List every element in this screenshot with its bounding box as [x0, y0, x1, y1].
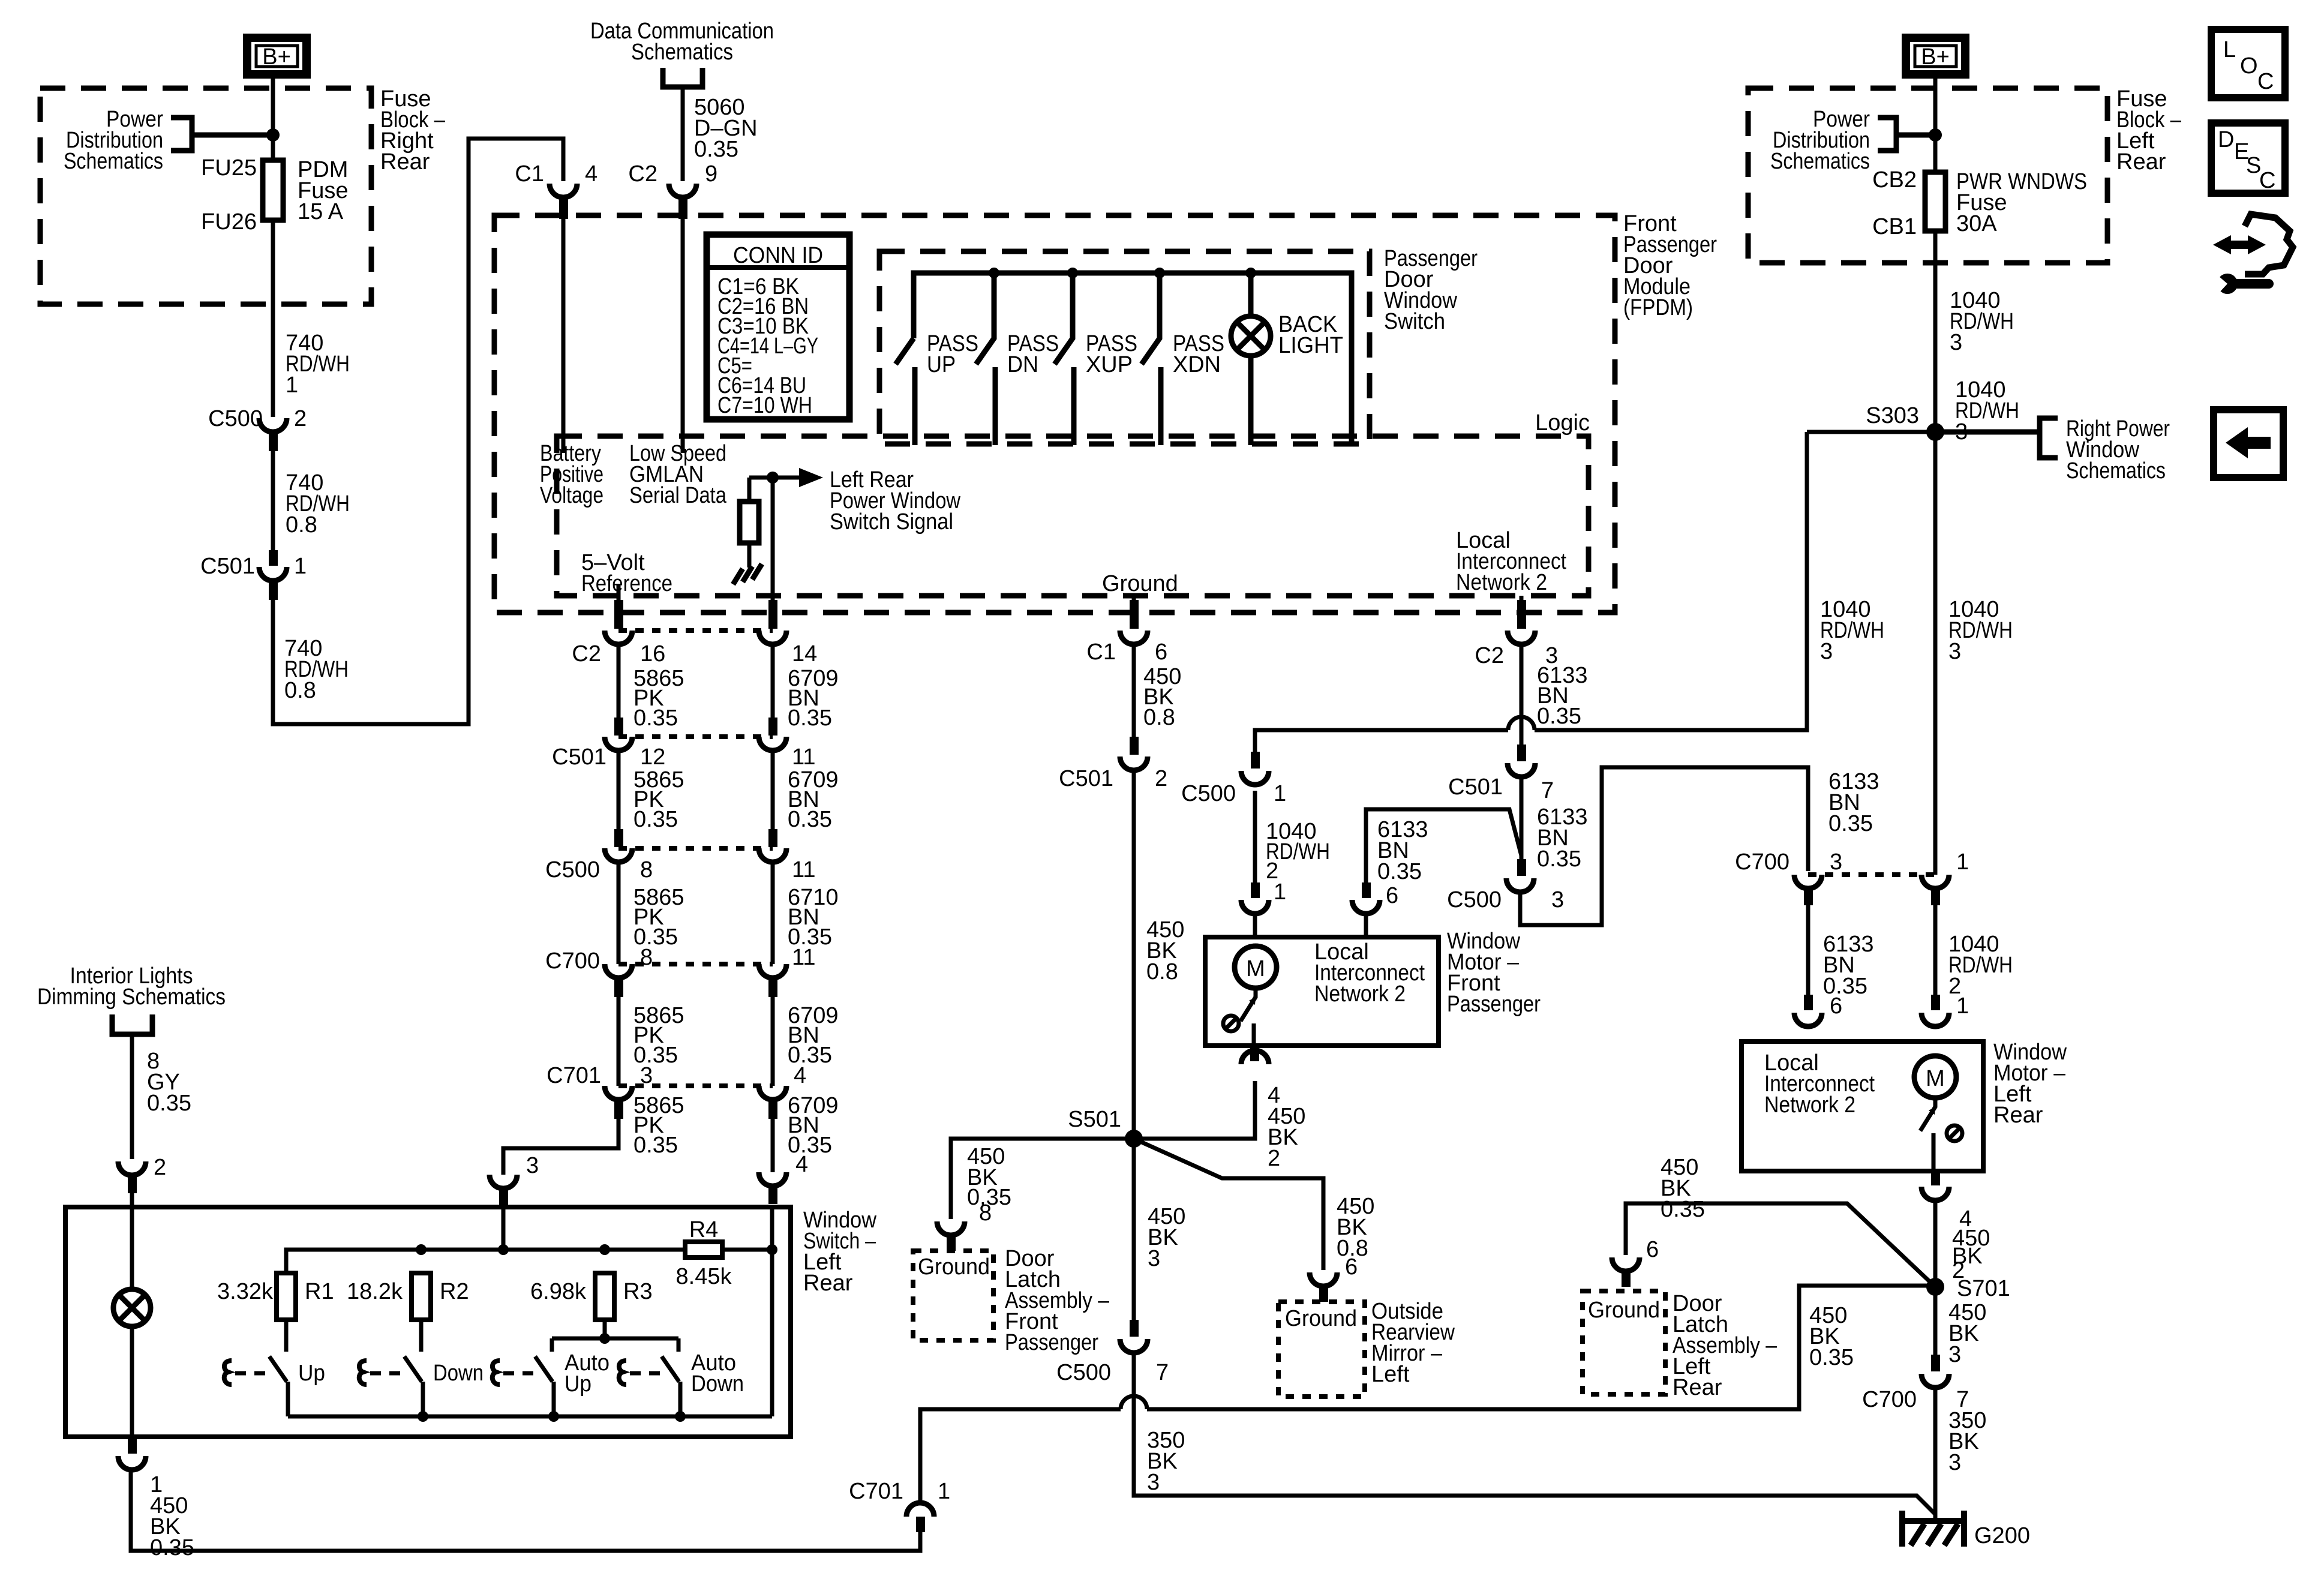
connector C700 pin 1 (main feed): [1921, 849, 1969, 905]
svg-text:3: 3: [1830, 849, 1842, 875]
svg-text:C500: C500: [208, 406, 263, 431]
svg-text:8: 8: [640, 857, 653, 882]
connector door latch front passenger pin 8: [937, 1221, 965, 1251]
wire callout to B+ feed: [192, 133, 273, 138]
svg-text:Ground: Ground: [1102, 571, 1178, 596]
svg-text:0.35: 0.35: [150, 1535, 194, 1560]
connector C1 pin 4: [515, 161, 597, 219]
node pin4 bus junction: [767, 1244, 777, 1255]
svg-text:2: 2: [1155, 766, 1167, 791]
svg-text:11: 11: [792, 945, 815, 970]
svg-text:Rear: Rear: [1993, 1103, 2043, 1128]
svg-text:0.35: 0.35: [1661, 1197, 1705, 1222]
wire 5865 PK 0.35 (C2-16 to C501-12): [618, 644, 684, 731]
connector window switch pin 4: [759, 1172, 786, 1204]
wire 350 BK 3 from C500-7 to G200 lead: [1134, 1353, 1935, 1514]
svg-text:Passenger: Passenger: [1447, 992, 1541, 1017]
logic block dashed box: [557, 436, 1589, 596]
connector C501 pin 7: [1448, 745, 1554, 803]
wire 6133 BN 0.35 (C501-7 to C500-3): [1521, 777, 1588, 876]
connector FP motor pin 6: [1352, 882, 1380, 914]
connector C700 pair dotted line: [1808, 872, 1935, 877]
label Local Interconnect Network 2 (LR motor): [1764, 1050, 1875, 1118]
node on bus (back light): [1245, 268, 1256, 278]
label Low Speed GMLAN Serial Data: [629, 441, 727, 508]
svg-text:Network 2: Network 2: [1314, 981, 1406, 1007]
svg-text:FU26: FU26: [201, 209, 257, 235]
wire S501 to outside rearview mirror, 450 BK 0.8 pin 6: [1134, 1139, 1374, 1280]
svg-text:12: 12: [640, 745, 665, 770]
svg-text:9: 9: [705, 161, 717, 187]
connector C500 pin 8: [545, 829, 653, 882]
switch PASS XDN: [1142, 273, 1224, 445]
svg-text:UP: UP: [927, 352, 956, 377]
svg-text:C: C: [2257, 69, 2274, 94]
svg-text:6: 6: [1386, 883, 1398, 908]
connector LR motor pin 4: [1921, 1171, 1972, 1232]
svg-text:Switch: Switch: [1384, 309, 1445, 334]
svg-text:C2: C2: [628, 161, 657, 187]
svg-text:6: 6: [1830, 993, 1842, 1019]
wire 5-volt reference to C2 pin 16: [617, 585, 621, 618]
svg-text:Rear: Rear: [1673, 1375, 1722, 1400]
svg-text:C501: C501: [1059, 766, 1113, 791]
svg-text:0.35: 0.35: [1809, 1345, 1854, 1370]
icon LOC box: [2211, 29, 2285, 98]
svg-text:C500: C500: [1056, 1360, 1111, 1385]
wire 5060 D-GN 0.35: [683, 87, 758, 181]
node R3 on bus: [599, 1244, 610, 1255]
svg-text:R1: R1: [305, 1279, 334, 1304]
svg-text:C1: C1: [515, 161, 544, 187]
svg-text:Ground: Ground: [918, 1254, 990, 1280]
svg-text:3: 3: [1950, 330, 1962, 355]
label Fuse Block - Left Rear: [2116, 86, 2182, 175]
wire 6133 BN 0.35 (C700-3 to LR motor pin 6): [1808, 905, 1874, 1019]
wire bottom switch bus: [288, 1415, 772, 1419]
svg-text:1: 1: [294, 554, 307, 579]
connector outside rearview mirror pin 6: [1310, 1272, 1337, 1302]
node tee under R3: [599, 1333, 610, 1344]
connector C500 pin 7: [1056, 1320, 1169, 1385]
connector C501 pin 2: [1059, 737, 1167, 791]
svg-text:C7=10 WH: C7=10 WH: [717, 393, 812, 418]
switch Up: [224, 1320, 325, 1416]
svg-text:Down: Down: [433, 1361, 484, 1386]
wire 6709 BN 0.35 to window switch pin 4: [773, 1093, 839, 1177]
wire pin 3 drop to bus: [502, 1206, 506, 1250]
label Window Motor - Front Passenger: [1447, 929, 1541, 1017]
connector LR motor pin 1: [1921, 995, 1949, 1026]
svg-text:Rear: Rear: [380, 149, 430, 175]
connector C1 pin 6: [1086, 600, 1167, 665]
svg-text:C701: C701: [849, 1479, 903, 1504]
svg-text:Switch Signal: Switch Signal: [830, 509, 953, 535]
svg-text:3.32k: 3.32k: [217, 1279, 274, 1304]
svg-text:Rear: Rear: [2116, 149, 2166, 175]
svg-text:2: 2: [294, 406, 307, 431]
svg-text:0.35: 0.35: [633, 1133, 678, 1158]
svg-text:R3: R3: [623, 1279, 653, 1304]
svg-text:B+: B+: [1921, 44, 1950, 70]
splice S701: [1926, 1276, 2010, 1301]
node junction at resistor top: [767, 472, 779, 484]
svg-text:CB1: CB1: [1872, 214, 1917, 239]
connector C500 pin 3: [1447, 859, 1564, 912]
svg-text:0.8: 0.8: [1146, 959, 1178, 984]
connector C700 pin 3: [1735, 849, 1842, 905]
svg-text:11: 11: [792, 745, 815, 770]
svg-text:3: 3: [1948, 1450, 1961, 1475]
wire 5865 PK 0.35 to window switch pin 3: [503, 1093, 684, 1175]
svg-text:7: 7: [1156, 1360, 1169, 1385]
label Front Passenger Door Module (FPDM): [1623, 211, 1717, 320]
svg-text:C2: C2: [1475, 643, 1504, 668]
connector FP motor pin 4: [1241, 1046, 1269, 1064]
svg-text:8: 8: [979, 1200, 992, 1226]
wire 6709 BN 0.35 (C700-11 to C701-4): [773, 997, 839, 1086]
wire 5865 PK 0.35 (C500-8 to C700-8): [618, 862, 684, 964]
node R2 on bus: [416, 1244, 427, 1255]
svg-text:2: 2: [1268, 1146, 1280, 1171]
svg-text:CONN ID: CONN ID: [733, 243, 823, 268]
label Door Latch Assembly - Front Passenger: [1005, 1246, 1110, 1355]
wire door latch left rear to S701: [1626, 1203, 1935, 1287]
node on bus (PASS XDN): [1154, 268, 1165, 278]
ground (internal): [733, 564, 762, 584]
wire S303 down main 1040 RD/WH 3: [1935, 432, 2013, 875]
wire C1-4 battery voltage input stub: [562, 219, 566, 453]
svg-text:Up: Up: [565, 1371, 591, 1397]
svg-text:M: M: [1246, 956, 1265, 981]
fuse block right rear dashed box: [40, 88, 371, 304]
svg-text:R2: R2: [440, 1279, 469, 1304]
svg-text:Schematics: Schematics: [2066, 458, 2166, 484]
label Door Latch Assembly - Left Rear: [1673, 1291, 1777, 1400]
svg-text:C500: C500: [1181, 781, 1236, 806]
connector C2 pin 16: [572, 600, 665, 667]
svg-text:15 A: 15 A: [298, 199, 344, 224]
switch Auto Up: [493, 1350, 609, 1416]
svg-text:3: 3: [1820, 639, 1833, 664]
connector C501 pin 11: [759, 718, 815, 770]
svg-text:B+: B+: [262, 44, 291, 70]
window motor front passenger box: [1205, 937, 1439, 1046]
svg-text:Schematics: Schematics: [64, 149, 163, 174]
switch PASS DN: [976, 273, 1059, 445]
node pin3 on bus: [498, 1244, 509, 1255]
wire S303 left branch to 1040 down-run: [1807, 430, 1935, 434]
wire R3 to auto switches tee: [552, 1320, 678, 1352]
svg-text:L: L: [2223, 37, 2236, 62]
icon vehicle double-arrow with wrench: [2213, 214, 2293, 294]
svg-text:C500: C500: [545, 857, 600, 882]
connector door latch left rear pin 6: [1612, 1237, 1659, 1287]
svg-text:0.35: 0.35: [633, 706, 678, 731]
svg-text:6: 6: [1646, 1237, 1659, 1262]
motor M (front passenger) with internal switch: [1223, 946, 1277, 1046]
svg-text:6.98k: 6.98k: [530, 1279, 587, 1304]
wire 450 BK 0.8 (C501-2 to S501): [1134, 770, 1184, 1139]
hop of 1040 wire over 6133 wire: [1508, 717, 1535, 730]
fuse FU25/FU26 PDM Fuse 15 A: [201, 155, 348, 235]
svg-text:0.35: 0.35: [147, 1091, 191, 1116]
svg-text:0.35: 0.35: [633, 807, 678, 832]
window switch left rear box: [65, 1207, 791, 1437]
node Down on bottom bus: [418, 1411, 428, 1422]
svg-text:C701: C701: [547, 1063, 601, 1088]
svg-text:0.35: 0.35: [694, 137, 738, 162]
svg-text:18.2k: 18.2k: [347, 1279, 403, 1304]
wire junction down to C2 pin 14: [771, 478, 775, 618]
wire top resistor bus: [286, 1250, 685, 1273]
label 5-Volt Reference: [581, 550, 672, 596]
wire C501-1 to FPDM connector C1 pin 4, label 740 RD/WH 0.8: [273, 139, 563, 724]
svg-text:0.35: 0.35: [788, 706, 832, 731]
svg-text:FU25: FU25: [201, 155, 257, 181]
resistor R1 3.32k: [217, 1273, 334, 1320]
svg-text:S501: S501: [1068, 1107, 1121, 1132]
wire 1040 RD/WH 2 from S303 branch to C500-1 and FP motor pin 1: [1255, 432, 1807, 938]
svg-text:CB2: CB2: [1872, 167, 1917, 193]
svg-text:C700: C700: [1735, 849, 1789, 875]
wire C2-3 down with hop over 1040 wire: [1517, 600, 1526, 629]
connector LR motor pin 6: [1794, 995, 1822, 1026]
svg-text:Up: Up: [298, 1361, 325, 1386]
svg-text:3: 3: [526, 1153, 539, 1178]
svg-text:D: D: [2218, 127, 2234, 152]
svg-text:0.35: 0.35: [1377, 859, 1422, 884]
svg-text:16: 16: [640, 641, 665, 667]
switch PASS UP: [896, 331, 978, 445]
node Auto Down on bottom bus: [675, 1411, 686, 1422]
svg-text:1: 1: [1274, 781, 1286, 806]
svg-text:C501: C501: [1448, 775, 1503, 800]
svg-text:Passenger: Passenger: [1005, 1330, 1098, 1355]
wire 6710 BN 0.35 (C500-11 to C700-11): [773, 862, 839, 964]
svg-text:Dimming Schematics: Dimming Schematics: [37, 984, 226, 1010]
wire 1040 RD/WH 2 (C700-1 to LR motor pin 1): [1935, 905, 2013, 1019]
wire C500-3 to C700-3: [1520, 767, 1808, 925]
wire switch supply bus: [914, 273, 1352, 445]
callout Power Distribution Schematics: [64, 107, 192, 174]
wire callout to B+ feed (right): [1896, 133, 1935, 138]
svg-text:2: 2: [1266, 858, 1278, 884]
label Passenger Door Window Switch: [1384, 246, 1478, 334]
svg-text:3: 3: [1948, 1342, 1961, 1367]
connector C701 pin 3: [547, 1063, 653, 1119]
svg-text:1: 1: [1956, 993, 1969, 1019]
svg-text:0.35: 0.35: [788, 807, 832, 832]
wire S501 to door latch front passenger, 450 BK 0.35 pin 8: [951, 1139, 1134, 1226]
connector C501 pair dotted line: [618, 734, 773, 739]
switch Down: [359, 1320, 484, 1416]
svg-text:0.8: 0.8: [1143, 705, 1175, 730]
svg-text:Network 2: Network 2: [1456, 570, 1547, 595]
connector C700 pin 8: [545, 945, 653, 997]
label Window Motor - Left Rear: [1993, 1040, 2067, 1128]
svg-text:1: 1: [1956, 849, 1969, 875]
wire 450 BK 0.35 from C701-1 to S701 with hop at C500-7 drop: [920, 1286, 1935, 1503]
svg-text:11: 11: [792, 857, 815, 882]
connector C500 pair dotted line: [618, 846, 773, 851]
wire 5865 PK 0.35 (C501-12 to C500-8): [618, 751, 684, 832]
svg-text:C700: C700: [1862, 1387, 1917, 1412]
svg-text:C700: C700: [545, 948, 600, 974]
svg-text:Serial Data: Serial Data: [629, 483, 727, 508]
connector C500 pin 11: [759, 829, 815, 882]
svg-text:Left: Left: [1371, 1362, 1410, 1387]
svg-text:1: 1: [938, 1479, 950, 1504]
svg-text:M: M: [1926, 1066, 1945, 1091]
wire B+ down to fuse: [271, 79, 275, 160]
svg-text:XUP: XUP: [1086, 352, 1133, 377]
wire S501 down 450 BK 3 to C500-7: [1134, 1139, 1185, 1333]
table CONN ID: [707, 235, 849, 419]
svg-text:2: 2: [154, 1155, 166, 1180]
ground door latch assembly left rear (dashed box): [1583, 1291, 1665, 1394]
svg-text:Schematics: Schematics: [631, 40, 733, 65]
wire bottom ground return from switch pin 1 to C701-1: [131, 1471, 920, 1551]
label 1040 RD/WH 3 (S303 left branch): [1820, 597, 1884, 664]
svg-text:LIGHT: LIGHT: [1278, 333, 1343, 358]
connector FP motor pin 1: [1241, 879, 1286, 914]
switch PASS XUP: [1055, 273, 1137, 445]
svg-text:0.35: 0.35: [1537, 704, 1581, 729]
connector C701 pin 1 (ground return): [849, 1479, 950, 1532]
svg-text:4: 4: [794, 1063, 806, 1088]
svg-text:DN: DN: [1007, 352, 1038, 377]
callout Power Distribution Schematics (right): [1770, 107, 1896, 174]
resistor R3 6.98k: [530, 1273, 653, 1320]
svg-text:4: 4: [585, 161, 597, 187]
node on bus (PASS DN): [989, 268, 999, 278]
connector C701 pin 4: [759, 1063, 806, 1119]
power symbol B+ (right rear feed): [247, 38, 307, 74]
node on bus (PASS XUP): [1067, 268, 1078, 278]
label Window Switch - Left Rear: [803, 1208, 876, 1296]
label Outside Rearview Mirror - Left: [1371, 1299, 1455, 1387]
svg-text:Reference: Reference: [581, 571, 672, 596]
wire fuse to connector C500-2, label 740 RD/WH 1: [273, 220, 350, 417]
connector C700 pin 7: [1862, 1355, 1969, 1412]
svg-text:0.35: 0.35: [788, 1133, 832, 1158]
label Local Interconnect Network 2 (FPDM): [1456, 528, 1566, 595]
wire S701 down 450 BK 3 to C700-7: [1935, 1287, 1986, 1367]
window motor left rear box: [1742, 1041, 1983, 1171]
svg-text:C500: C500: [1447, 887, 1502, 912]
connector C700 pair dotted line: [618, 962, 773, 966]
wire C2-9 serial data input stub: [681, 219, 685, 453]
svg-text:6: 6: [1345, 1254, 1358, 1280]
svg-text:0.35: 0.35: [1828, 811, 1873, 836]
resistor (internal pull-up): [740, 478, 759, 568]
label Local Interconnect Network 2 (FP motor): [1314, 939, 1425, 1007]
wire 6709 BN 0.35 (C2-14 to C501-11): [773, 644, 839, 731]
splice S501: [1068, 1107, 1143, 1148]
svg-text:1: 1: [286, 373, 298, 398]
label 6133 BN 0.35 (C2-3 to C501-7): [1537, 663, 1588, 729]
wire 8 GY 0.35 to switch pin 2: [132, 1034, 191, 1159]
lamp (switch illumination): [113, 1207, 151, 1437]
power symbol B+ (left rear feed): [1906, 38, 1965, 74]
callout Interior Lights Dimming Schematics: [37, 963, 226, 1034]
wire pin 4 drop into box: [770, 1205, 774, 1416]
svg-text:3: 3: [1948, 639, 1961, 664]
label 6133 BN 0.35 (above C700-3): [1828, 769, 1879, 836]
connector C500 pin 2: [208, 406, 307, 451]
icon DESC box: [2211, 123, 2285, 193]
svg-text:3: 3: [1148, 1246, 1160, 1271]
svg-text:0.8: 0.8: [286, 512, 317, 538]
svg-text:Rear: Rear: [803, 1271, 853, 1296]
ground G200: [1902, 1511, 2030, 1548]
svg-text:3: 3: [1551, 887, 1564, 912]
connector window switch pin 1: [118, 1437, 194, 1560]
resistor R2 18.2k: [347, 1273, 469, 1320]
svg-text:3: 3: [1147, 1470, 1160, 1495]
switch Auto Down: [619, 1350, 744, 1416]
connector C501 pin 1: [200, 550, 307, 600]
connector C701 pair dotted line: [618, 1083, 773, 1088]
wire B+ down to circuit breaker: [1933, 79, 1938, 172]
label 450 BK 0.35 (door latch left rear): [1661, 1155, 1705, 1222]
wire 5865 PK 0.35 (C700-8 to C701-3): [618, 997, 684, 1086]
label Battery Positive Voltage: [540, 441, 603, 508]
wire S501 to FP motor pin 4, 450 BK 2: [1134, 1081, 1305, 1171]
wire 450 BK 0.8 (C1-6 to C501-2): [1134, 644, 1181, 738]
svg-text:O: O: [2240, 53, 2258, 79]
wire ground output to C1 pin 6: [1132, 596, 1136, 618]
connector C500 pin 1: [1181, 752, 1286, 806]
svg-text:Network 2: Network 2: [1764, 1092, 1855, 1118]
splice S303: [1866, 403, 1944, 441]
svg-text:C501: C501: [552, 745, 606, 770]
svg-text:C: C: [2259, 168, 2275, 193]
resistor R4 8.45k: [676, 1217, 772, 1289]
ground outside rearview mirror left (dashed box): [1278, 1302, 1365, 1397]
connector C2 pin 9: [628, 161, 717, 219]
icon left arrow box: [2214, 410, 2283, 478]
svg-text:S303: S303: [1866, 403, 1919, 428]
node junction on B+ feed: [266, 128, 280, 142]
svg-text:R4: R4: [689, 1217, 719, 1242]
node junction on B+ feed (right): [1929, 128, 1942, 142]
svg-text:0.35: 0.35: [1537, 846, 1581, 872]
circuit breaker CB2/CB1 PWR WNDWS Fuse 30A: [1872, 167, 2087, 239]
connector C501 pin 12: [552, 718, 665, 770]
svg-text:G200: G200: [1974, 1523, 2030, 1548]
wire 6709 BN 0.35 (C501-11 to C500-11): [773, 751, 839, 832]
callout Right Power Window Schematics: [1935, 416, 2170, 484]
connector C700 pin 11: [759, 945, 815, 997]
svg-text:C501: C501: [200, 554, 255, 579]
svg-text:C2: C2: [572, 641, 601, 667]
passenger door window switch dashed box: [879, 251, 1370, 444]
svg-text:Down: Down: [691, 1371, 744, 1397]
svg-text:S701: S701: [1957, 1276, 2010, 1301]
fuse block left rear dashed box: [1748, 88, 2107, 263]
motor M (left rear) with internal switch: [1914, 1056, 1962, 1171]
wire LIN2 output to C2 pin 3: [1520, 596, 1524, 612]
lamp BACK LIGHT: [1231, 273, 1343, 445]
connector C2 pair dotted line: [618, 628, 773, 633]
callout Data Communication Schematics: [590, 19, 774, 87]
node Auto Up on bottom bus: [548, 1411, 559, 1422]
svg-text:C1: C1: [1086, 640, 1116, 665]
connector window switch pin 3: [490, 1153, 539, 1206]
svg-text:30A: 30A: [1956, 211, 1997, 236]
